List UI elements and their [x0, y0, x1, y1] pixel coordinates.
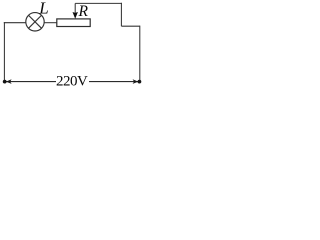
220V dimension line left segment	[6, 81, 56, 83]
wire top-left horizontal	[4, 22, 26, 24]
wire right upper vertical	[120, 3, 122, 26]
wire middle horizontal step	[121, 25, 139, 27]
node dot right	[138, 80, 142, 84]
svg-text:R: R	[78, 3, 89, 20]
lamp L	[26, 13, 44, 31]
node dot left	[3, 80, 7, 84]
svg-text:220V: 220V	[56, 73, 88, 89]
left arrowhead	[6, 79, 12, 84]
wire right vertical	[139, 26, 141, 81]
rheostat slider arrow	[73, 3, 78, 18]
svg-text:L: L	[38, 0, 48, 17]
wire top horizontal	[75, 2, 122, 4]
right arrowhead	[133, 79, 139, 84]
wire left vertical	[3, 22, 5, 81]
wire lamp to rheostat	[44, 22, 57, 24]
resistor R (rheostat body)	[57, 19, 90, 27]
220V dimension line right segment	[89, 81, 138, 83]
